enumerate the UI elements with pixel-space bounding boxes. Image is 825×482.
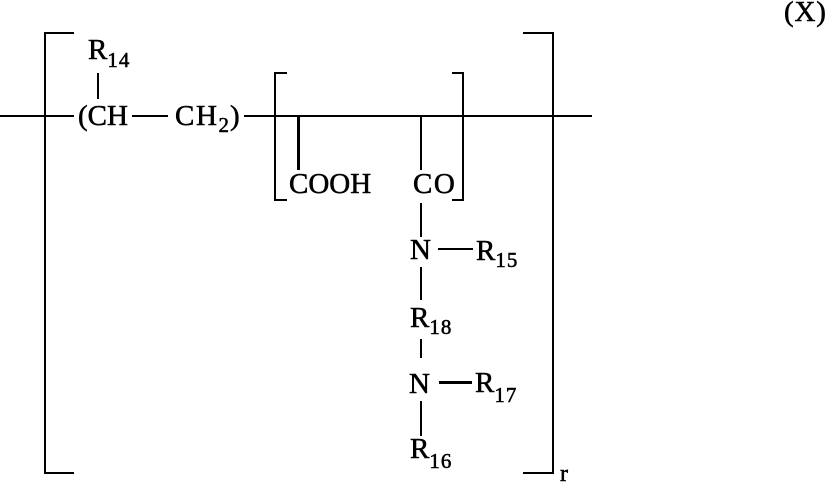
group CH2) bbox=[175, 102, 241, 131]
substituent R17 bbox=[475, 369, 517, 398]
main chain wire left stub bbox=[0, 115, 74, 117]
bond R18-N2 bbox=[420, 339, 422, 359]
substituent R14 bbox=[88, 36, 130, 65]
bond R14-CH bbox=[97, 73, 99, 99]
substituent R15 bbox=[476, 237, 518, 266]
bond chain-CO bbox=[420, 116, 422, 170]
substituent R16 bbox=[410, 435, 452, 464]
bond N2-R17 bbox=[439, 381, 473, 383]
group (CH bbox=[78, 102, 128, 131]
bond N2-R16 bbox=[420, 401, 422, 437]
group CO bbox=[413, 170, 456, 199]
inner left bracket bbox=[274, 72, 287, 202]
atom N2 bbox=[409, 370, 430, 399]
group COOH bbox=[289, 170, 371, 199]
atom N1 bbox=[410, 236, 431, 265]
subscript r of outer bracket bbox=[560, 462, 568, 482]
outer left bracket bbox=[44, 32, 74, 474]
substituent R18 bbox=[410, 304, 452, 333]
bond N1-R18 bbox=[420, 267, 422, 300]
label (X) bbox=[784, 0, 825, 27]
main chain wire right bbox=[244, 115, 592, 117]
inner right bracket bbox=[452, 72, 465, 202]
outer right bracket bbox=[523, 32, 554, 474]
bond N1-R15 bbox=[438, 248, 473, 250]
bond CH-CH2 bbox=[132, 115, 168, 117]
bond CO-N1 bbox=[420, 203, 422, 237]
bond chain-COOH bbox=[297, 116, 299, 170]
